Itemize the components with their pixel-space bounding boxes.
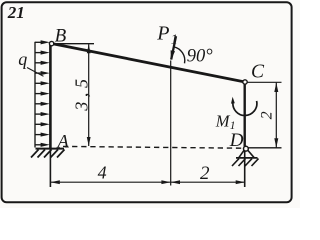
svg-text:4: 4 bbox=[98, 163, 107, 183]
force P1 line bbox=[171, 36, 176, 59]
svg-text:90°: 90° bbox=[187, 46, 214, 66]
svg-text:q: q bbox=[18, 49, 27, 69]
svg-text:D: D bbox=[229, 130, 244, 151]
member CD (right column) bbox=[243, 82, 245, 147]
member AB (vertical column) bbox=[49, 44, 52, 149]
right dimension 2: top extension from C bbox=[247, 81, 282, 83]
member AB extension below support to dimension line bbox=[49, 148, 51, 187]
leader line from q bbox=[27, 68, 44, 77]
svg-text:2: 2 bbox=[200, 163, 210, 184]
distributed load q: tail line bbox=[34, 42, 36, 148]
moment M1 arc bbox=[233, 101, 257, 116]
dimension 3,5: vertical line with arrows bbox=[87, 44, 91, 146]
bottom dimension line bbox=[51, 181, 246, 183]
support D (pin on hatched ground) bbox=[232, 146, 259, 166]
svg-text:C: C bbox=[251, 62, 265, 83]
svg-text:A: A bbox=[56, 132, 70, 152]
svg-text:M: M bbox=[215, 112, 231, 131]
svg-text:21: 21 bbox=[7, 3, 25, 22]
90 degree arc bbox=[174, 47, 185, 64]
bottom dimension arrows bbox=[51, 180, 246, 184]
node C pin circle bbox=[243, 80, 247, 84]
svg-text:2: 2 bbox=[258, 111, 275, 119]
svg-text:1: 1 bbox=[230, 120, 236, 132]
svg-text:P: P bbox=[156, 23, 169, 45]
distributed load q: arrows bbox=[35, 40, 50, 147]
member CD extension below support to dimension line bbox=[244, 147, 246, 187]
member BC (inclined beam) bbox=[52, 44, 246, 83]
force P1 arrowhead bbox=[171, 50, 175, 60]
svg-text:3,5: 3,5 bbox=[71, 74, 91, 111]
middle extension line under P1 bbox=[170, 61, 172, 186]
node B pin circle bbox=[49, 41, 53, 45]
dimension 3,5: extension line from B bbox=[53, 43, 94, 45]
support A (fixed, hatched ground) bbox=[31, 149, 65, 158]
moment M1 arrowhead bbox=[231, 97, 235, 104]
right dimension 2: bottom extension from D bbox=[249, 147, 282, 149]
right dimension 2: vertical line with arrows bbox=[274, 83, 278, 148]
svg-text:1: 1 bbox=[171, 32, 178, 47]
dashed reference line A to D bbox=[63, 146, 243, 148]
